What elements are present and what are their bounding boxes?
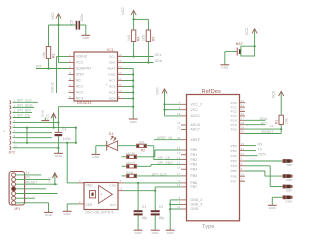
svg-text:VCC: VCC [191, 108, 199, 112]
svg-text:NC6: NC6 [109, 85, 116, 89]
svg-text:13: 13 [177, 152, 181, 155]
svg-text:SDA: SDA [155, 59, 163, 63]
svg-text:GND_3: GND_3 [191, 203, 203, 207]
svg-text:NC3: NC3 [76, 97, 83, 101]
svg-text:SPI_SDO: SPI_SDO [17, 103, 33, 107]
svg-text:RefDes: RefDes [202, 89, 221, 95]
svg-text:18p: 18p [158, 216, 164, 220]
svg-text:R3: R3 [52, 53, 56, 58]
svg-text:RX: RX [25, 176, 30, 180]
svg-text:VCC: VCC [51, 12, 55, 20]
svg-text:31: 31 [241, 147, 245, 151]
svg-text:GND_2: GND_2 [191, 198, 203, 202]
svg-text:25: 25 [241, 108, 245, 112]
svg-text:10: 10 [118, 89, 122, 93]
svg-text:30: 30 [241, 142, 245, 146]
svg-text:NC1: NC1 [76, 85, 83, 89]
svg-text:/RESET: /RESET [25, 180, 38, 184]
svg-text:GND: GND [130, 120, 138, 124]
svg-text:RX: RX [258, 142, 264, 146]
svg-text:PB3: PB3 [191, 163, 198, 167]
svg-text:32KHZ: 32KHZ [51, 82, 55, 93]
svg-text:/RST: /RST [76, 73, 84, 77]
svg-text:PB2: PB2 [191, 158, 198, 162]
svg-text:NC5: NC5 [109, 91, 116, 95]
svg-text:12: 12 [118, 77, 122, 81]
svg-text:GND: GND [191, 207, 199, 211]
svg-text:11: 11 [241, 177, 244, 181]
svg-text:JP2: JP2 [9, 151, 16, 155]
svg-text:PB4: PB4 [191, 167, 198, 171]
svg-text:22: 22 [177, 127, 181, 130]
svg-text:C9: C9 [70, 20, 74, 25]
svg-text:PB1: PB1 [191, 153, 198, 157]
svg-text:PC1: PC1 [231, 105, 238, 109]
svg-text:INT0: INT0 [259, 152, 267, 156]
svg-text:SPI_SDO: SPI_SDO [158, 161, 174, 165]
svg-text:+: + [105, 83, 107, 87]
svg-text:1k5: 1k5 [142, 35, 146, 41]
svg-text:VCC: VCC [121, 7, 125, 15]
svg-text:32KHZ: 32KHZ [76, 55, 87, 59]
svg-text:VCC: VCC [155, 87, 159, 95]
svg-text:NC: NC [76, 79, 82, 83]
svg-text:16: 16 [118, 53, 122, 57]
svg-text:OUT: OUT [110, 203, 117, 207]
svg-text:SPI_SDI: SPI_SDI [17, 108, 31, 112]
svg-text:1k5: 1k5 [127, 35, 131, 41]
svg-text:SPI_CS: SPI_CS [158, 156, 171, 160]
svg-text:VCC: VCC [272, 90, 276, 98]
svg-text:SPI_CS: SPI_CS [17, 113, 30, 117]
svg-text:26: 26 [241, 112, 245, 116]
svg-text:C2: C2 [159, 205, 164, 209]
svg-text:VDD: VDD [86, 183, 94, 187]
svg-text:SCL: SCL [155, 53, 162, 57]
svg-text:+: + [100, 193, 102, 197]
svg-text:PD5: PD5 [231, 169, 238, 173]
svg-text:15: 15 [118, 59, 122, 63]
svg-text:ADC7: ADC7 [191, 128, 201, 132]
svg-text:100n: 100n [63, 137, 71, 141]
svg-text:PD0: PD0 [231, 144, 238, 148]
svg-text:GND: GND [55, 154, 63, 158]
svg-text:JP1: JP1 [14, 207, 21, 211]
svg-text:NC2: NC2 [76, 91, 83, 95]
svg-text:29: 29 [241, 125, 245, 129]
svg-text:VCC: VCC [46, 113, 50, 121]
svg-text:GND: GND [92, 155, 100, 159]
svg-text:PB7: PB7 [191, 185, 198, 189]
svg-text:SPI_CLK: SPI_CLK [17, 98, 32, 102]
svg-text:SDA: SDA [260, 117, 268, 121]
svg-text:14: 14 [118, 65, 122, 69]
svg-text:R2: R2 [141, 148, 146, 152]
svg-text:AREF: AREF [191, 138, 201, 142]
svg-text:VCC_2: VCC_2 [191, 103, 203, 107]
svg-text:PB0: PB0 [191, 148, 198, 152]
svg-text:11: 11 [118, 83, 121, 87]
svg-text:TBP: TBP [286, 163, 292, 167]
svg-text:UBP: UBP [286, 178, 293, 182]
svg-text:GND: GND [64, 212, 72, 216]
svg-text:SCL: SCL [109, 55, 116, 59]
svg-text:Type: Type [202, 224, 215, 230]
svg-text:PC3: PC3 [231, 114, 238, 118]
svg-text:12: 12 [177, 147, 181, 150]
svg-text:VSS: VSS [86, 203, 93, 207]
svg-text:GND: GND [82, 36, 90, 40]
svg-text:GND: GND [45, 213, 53, 217]
svg-text:R1: R1 [275, 119, 279, 124]
svg-text:AREF_IN: AREF_IN [157, 136, 173, 140]
svg-text:PD7: PD7 [231, 179, 238, 183]
svg-text:SQW/INT: SQW/INT [76, 67, 91, 71]
svg-text:GND: GND [134, 231, 142, 235]
svg-text:19: 19 [177, 122, 181, 125]
svg-text:16: 16 [177, 166, 181, 169]
svg-text:ADC6: ADC6 [191, 123, 201, 127]
svg-text:GND: GND [285, 199, 293, 203]
svg-text:GND: GND [110, 183, 117, 187]
svg-text:C4: C4 [62, 128, 67, 132]
svg-text:GND: GND [167, 231, 175, 235]
svg-text:GND: GND [108, 73, 116, 77]
svg-text:28: 28 [241, 121, 245, 125]
svg-text:VCC: VCC [47, 177, 51, 183]
svg-text:SCL: SCL [261, 121, 268, 125]
svg-text:27: 27 [241, 117, 245, 121]
svg-text:PC6: PC6 [231, 127, 238, 131]
svg-text:18p: 18p [141, 216, 147, 220]
svg-text:GND: GND [269, 206, 277, 210]
svg-text:NC7: NC7 [109, 79, 116, 83]
svg-text:VBAT: VBAT [107, 67, 115, 71]
svg-text:R4: R4 [137, 36, 141, 41]
svg-text:10: 10 [241, 172, 245, 176]
svg-text:100n: 100n [80, 13, 84, 21]
svg-text:120: 120 [138, 141, 144, 145]
svg-text:PD2: PD2 [231, 154, 238, 158]
svg-text:VCC: VCC [76, 61, 84, 65]
svg-text:24: 24 [241, 103, 245, 107]
svg-text:NC4: NC4 [109, 97, 116, 101]
svg-text:PC5: PC5 [231, 123, 238, 127]
svg-text:10k: 10k [284, 118, 288, 124]
svg-text:10k: 10k [42, 52, 46, 58]
svg-text:INT: INT [36, 64, 42, 68]
svg-text:30: 30 [241, 130, 245, 134]
svg-text:SPI_CLK: SPI_CLK [152, 173, 167, 177]
svg-text:C3: C3 [270, 124, 274, 128]
svg-text:PC0: PC0 [231, 101, 238, 105]
svg-text:15: 15 [177, 162, 181, 165]
svg-text:PD3: PD3 [231, 159, 238, 163]
svg-text:PC4: PC4 [231, 119, 238, 123]
svg-text:17: 17 [177, 173, 181, 176]
svg-text:BAT: BAT [236, 42, 244, 46]
svg-text:IC1: IC1 [107, 48, 113, 52]
svg-text:TX: TX [258, 147, 263, 151]
svg-text:PC2: PC2 [231, 110, 238, 114]
svg-text:PD1: PD1 [231, 149, 238, 153]
svg-text:13: 13 [118, 71, 122, 75]
svg-text:D1: D1 [109, 132, 114, 136]
svg-text:14: 14 [177, 157, 181, 160]
svg-text:R5: R5 [152, 36, 156, 41]
svg-text:GND: GND [221, 66, 229, 70]
svg-text:DS3231: DS3231 [77, 101, 92, 105]
svg-text:TX: TX [25, 171, 30, 175]
svg-text:OSC-OE-CFPS-9: OSC-OE-CFPS-9 [85, 211, 113, 215]
svg-text:32: 32 [241, 152, 245, 156]
svg-text:C1: C1 [142, 205, 147, 209]
svg-text:PD4: PD4 [231, 164, 238, 168]
svg-text:PD6: PD6 [231, 174, 238, 178]
svg-text:VCC: VCC [245, 27, 249, 35]
svg-text:+: + [246, 124, 248, 128]
svg-text:GND: GND [41, 109, 45, 117]
svg-text:PB5: PB5 [191, 174, 198, 178]
svg-text:SDA: SDA [109, 61, 116, 65]
svg-text:23: 23 [241, 99, 245, 103]
svg-text:AVCC: AVCC [191, 114, 201, 118]
svg-text:DBP: DBP [286, 189, 293, 193]
svg-text:GND: GND [152, 231, 160, 235]
